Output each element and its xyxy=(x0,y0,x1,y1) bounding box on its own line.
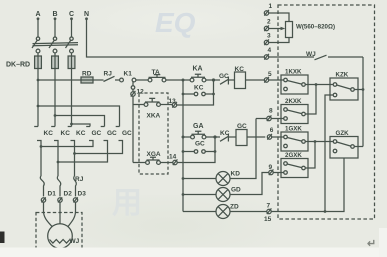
svg-text:TA: TA xyxy=(152,69,160,76)
svg-text:1GXK: 1GXK xyxy=(285,126,302,133)
svg-text:8: 8 xyxy=(269,107,273,114)
wire ZD to terminal 7 xyxy=(230,211,267,213)
terminal 13 xyxy=(172,102,177,108)
wire phase B drop xyxy=(54,19,56,37)
wire bus to GD lamp xyxy=(183,194,216,196)
svg-text:1KXK: 1KXK xyxy=(285,69,302,76)
contactor main contact GC 1 xyxy=(41,127,93,147)
svg-text:KZK: KZK xyxy=(336,72,349,79)
terminal dot A xyxy=(37,17,40,20)
wire 7 into panel to GZK bottom xyxy=(271,158,344,212)
wire C to GC1 top xyxy=(72,124,91,127)
node KC loop left xyxy=(182,93,185,96)
control line from A xyxy=(38,79,81,81)
node rung1 after KA xyxy=(212,78,215,81)
terminal 14 xyxy=(173,159,178,165)
motor terminal 2 xyxy=(58,197,62,202)
wire 13 to rung1 node xyxy=(177,95,214,105)
wire terminal 3 to resistor bottom xyxy=(269,38,289,43)
svg-text:D1: D1 xyxy=(48,191,57,198)
wire 12 down to limit switches xyxy=(133,96,146,162)
wire GA node to KC contact xyxy=(206,136,220,138)
wire neutral N down and right xyxy=(87,19,265,57)
wire motor lead 3 xyxy=(68,202,76,226)
terminal 6 xyxy=(267,134,272,140)
svg-text:13: 13 xyxy=(169,98,177,105)
interlock contact GC normally closed xyxy=(220,77,235,85)
svg-text:2: 2 xyxy=(267,19,271,26)
thermostat contact WJ xyxy=(315,55,364,60)
wire 2KXK exit riser xyxy=(305,85,316,115)
svg-text:KD: KD xyxy=(231,170,241,177)
svg-text:用: 用 xyxy=(112,187,142,220)
wire 14 to rung2 node xyxy=(177,153,215,163)
svg-text:EQ: EQ xyxy=(155,7,196,38)
wire terminal 9 into panel xyxy=(273,172,284,174)
bottom page margin strip xyxy=(0,248,387,257)
controller switch GZK xyxy=(330,137,358,159)
node GA rung on bus xyxy=(182,136,185,139)
terminal 3 xyxy=(264,39,269,45)
wire KA node to GC contact xyxy=(206,79,220,81)
start button KA xyxy=(190,74,206,82)
wire 1GXK exit to GZK xyxy=(305,141,333,143)
heater WJ circle xyxy=(48,224,73,249)
heater dashed enclosure xyxy=(36,213,82,253)
wire bus to ZD lamp xyxy=(183,211,216,213)
connector circle above 12 xyxy=(131,86,135,90)
wire GD to terminal 9 xyxy=(230,173,269,195)
wire terminal 6 into panel xyxy=(272,136,284,138)
wire left control bus xyxy=(182,80,184,212)
node rung2 loop right xyxy=(214,150,217,153)
svg-text:D2: D2 xyxy=(64,191,73,198)
heater element lead 1 xyxy=(40,176,44,196)
terminal 2 xyxy=(264,25,269,31)
wire terminal 1 to resistor top xyxy=(269,13,289,22)
wire XKA to terminal 13 xyxy=(160,104,172,106)
knife switch DK-RD pole C xyxy=(66,37,74,53)
motor terminal 1 xyxy=(41,197,45,202)
self-hold contact GC parallel xyxy=(183,138,215,153)
lamp KD xyxy=(216,172,230,186)
terminal 4 xyxy=(264,54,269,60)
black scan mark left edge xyxy=(0,232,5,244)
wire motor lead 2 xyxy=(59,202,61,224)
wire terminal 8 into panel xyxy=(271,118,284,120)
wire terminal 8 left corner xyxy=(256,118,267,120)
terminal 8 xyxy=(267,115,272,121)
wire RD to RJ xyxy=(93,79,104,81)
svg-text:A: A xyxy=(35,11,40,18)
wire B to GC2 top xyxy=(55,116,105,127)
wire KD to terminal 8 riser xyxy=(230,119,256,179)
svg-text:7: 7 xyxy=(267,202,271,209)
svg-text:XGA: XGA xyxy=(147,151,161,158)
wire phase C down to contact row xyxy=(71,69,73,127)
terminal dot C xyxy=(70,17,73,20)
fuse RD xyxy=(81,77,93,83)
wire KZK exit right xyxy=(354,89,363,91)
node KXK exits join xyxy=(315,83,318,86)
selector switch 1KXK xyxy=(281,75,308,94)
wire coil GC to terminal 6 xyxy=(247,136,265,138)
limit switch contact XKA xyxy=(144,98,160,106)
wire XGA to terminal 14 xyxy=(160,162,172,164)
wire 1KXK exit to KZK xyxy=(305,84,333,86)
node rung2 after GA xyxy=(213,135,216,138)
svg-text:GZK: GZK xyxy=(336,130,350,137)
self-hold contact KC parallel xyxy=(183,81,214,96)
selector switch 1GXK xyxy=(281,132,308,151)
wire terminal 5 into panel xyxy=(269,79,284,81)
terminal 7 xyxy=(267,208,272,214)
node GC1 join D1 xyxy=(40,145,43,148)
knife switch DK-RD pole A xyxy=(32,37,40,53)
svg-text:GC: GC xyxy=(195,141,205,148)
svg-text:KC: KC xyxy=(61,130,71,137)
node KZK exit on WJ riser xyxy=(362,88,365,91)
heater element lead 3 xyxy=(74,176,77,196)
selector switch 2KXK xyxy=(281,105,308,124)
svg-text:K1: K1 xyxy=(124,71,133,78)
svg-text:GD: GD xyxy=(231,186,241,193)
heater WJ element zigzag xyxy=(50,240,70,244)
svg-text:C: C xyxy=(69,11,74,18)
node KZK drop joins 7 line xyxy=(324,210,327,213)
contactor main contact KC 2 xyxy=(51,127,58,177)
node GC1 tap on C xyxy=(70,123,73,126)
svg-text:DK–RD: DK–RD xyxy=(6,62,30,69)
node GC2 join D2 xyxy=(57,161,60,164)
heater element lead 2 xyxy=(57,176,60,196)
node GXK exits join xyxy=(314,140,317,143)
wire A to GC3 top xyxy=(38,106,120,127)
knife switch gang bar xyxy=(33,43,79,46)
controller dashed enclosure xyxy=(278,5,375,219)
svg-text:WJ: WJ xyxy=(70,238,80,245)
svg-text:N: N xyxy=(84,11,89,18)
node GD tap xyxy=(182,193,185,196)
svg-text:14: 14 xyxy=(169,153,177,160)
svg-text:GC: GC xyxy=(237,123,247,130)
svg-text:9: 9 xyxy=(269,164,273,171)
stop button TA xyxy=(148,75,166,82)
lamp ZD xyxy=(216,205,230,219)
wire phase A down to contact row xyxy=(37,69,39,127)
node GC3 tap on A xyxy=(37,105,40,108)
wire coil KC to terminal 5 xyxy=(246,79,265,81)
terminal 5 xyxy=(264,77,269,83)
terminal 1 xyxy=(264,10,269,16)
svg-text:GC: GC xyxy=(107,130,117,137)
svg-text:GC: GC xyxy=(219,73,229,80)
svg-text:12: 12 xyxy=(137,89,145,96)
svg-text:2GXK: 2GXK xyxy=(285,152,302,159)
svg-text:GA: GA xyxy=(193,123,204,130)
svg-text:5: 5 xyxy=(268,71,272,78)
svg-text:W(560–820Ω): W(560–820Ω) xyxy=(296,24,335,31)
interlock contact KC normally closed xyxy=(220,134,236,142)
node GC3 join D3 xyxy=(73,152,76,155)
wire phase A drop xyxy=(37,19,39,37)
svg-text:B: B xyxy=(52,11,57,18)
wire GZK exit right xyxy=(354,146,363,148)
svg-text:↵: ↵ xyxy=(367,238,376,250)
wire phase B down to contact row xyxy=(54,69,56,127)
knife switch DK-RD pole B xyxy=(49,37,57,53)
svg-text:XKA: XKA xyxy=(147,112,161,119)
right bottom page corner xyxy=(379,228,387,257)
contactor main contact GC 2 xyxy=(58,127,108,163)
lamp GD xyxy=(216,188,230,202)
svg-text:15: 15 xyxy=(264,216,272,223)
terminal 9 xyxy=(269,169,274,175)
svg-text:ZD: ZD xyxy=(230,203,239,210)
limit switch contact XGA xyxy=(146,157,161,164)
svg-text:KC: KC xyxy=(220,130,230,137)
wire drop to connector 12 xyxy=(132,81,134,86)
selector switch 2GXK xyxy=(281,159,308,178)
wire terminal 2 wiper arrow xyxy=(269,27,286,31)
svg-text:1: 1 xyxy=(269,3,273,10)
node GC loop left xyxy=(182,150,185,153)
wire terminal 4 into panel xyxy=(269,56,314,58)
node control tap on A xyxy=(37,79,40,82)
node GC2 tap on B xyxy=(54,114,57,117)
relay contact K1 xyxy=(119,78,136,82)
terminal dot N xyxy=(85,17,88,20)
limit switch dashed box XKA XGA xyxy=(139,93,168,174)
wire phase C drop xyxy=(71,19,73,37)
thermal relay contact RJ xyxy=(104,76,120,81)
coil GC xyxy=(236,130,247,146)
svg-text:KC: KC xyxy=(44,130,54,137)
node rung1 loop right xyxy=(212,93,215,96)
svg-text:4: 4 xyxy=(268,47,272,54)
svg-text:GC: GC xyxy=(92,130,102,137)
svg-text:KA: KA xyxy=(193,66,203,73)
contactor main contact KC 1 xyxy=(34,127,41,177)
motor terminal 3 xyxy=(73,197,77,202)
start button GA xyxy=(191,131,206,139)
node KD tap xyxy=(182,177,185,180)
wire bus to KD lamp xyxy=(183,178,216,180)
fuse B xyxy=(52,53,59,69)
fuse A xyxy=(35,53,42,69)
wire connector gap xyxy=(132,89,134,92)
svg-text:D3: D3 xyxy=(78,191,87,198)
controller switch KZK xyxy=(330,78,358,100)
wire K1 to TA xyxy=(136,79,148,81)
resistor W xyxy=(286,22,293,38)
fuse C xyxy=(68,53,75,69)
terminal dot B xyxy=(54,17,57,20)
svg-text:RD: RD xyxy=(82,71,92,78)
wire KZK lower left drop xyxy=(325,95,333,212)
wire WJ down right side xyxy=(362,57,364,147)
contactor main contact KC 3 xyxy=(68,127,75,177)
wire 2GXK exit riser xyxy=(305,142,315,169)
node left control bus top xyxy=(182,79,185,82)
contactor main contact GC 3 xyxy=(75,127,123,154)
svg-text:KC: KC xyxy=(235,66,245,73)
svg-text:KC: KC xyxy=(194,84,204,91)
wire motor lead 1 xyxy=(44,202,53,226)
svg-text:3: 3 xyxy=(267,33,271,40)
wire TA to KA xyxy=(166,79,190,81)
svg-text:GC: GC xyxy=(122,130,132,137)
svg-text:2KXK: 2KXK xyxy=(285,98,302,105)
terminal 12 xyxy=(131,91,136,97)
svg-text:6: 6 xyxy=(270,127,274,134)
svg-text:KC: KC xyxy=(76,130,86,137)
svg-text:RJ: RJ xyxy=(104,71,113,78)
coil KC xyxy=(235,72,246,89)
wire bus to GA xyxy=(183,136,191,138)
svg-text:WJ: WJ xyxy=(306,51,316,58)
